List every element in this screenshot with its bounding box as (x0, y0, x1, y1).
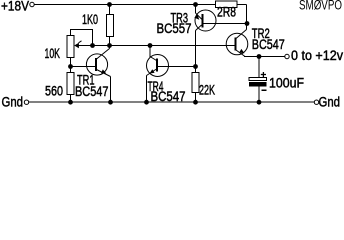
svg-text:10K: 10K (45, 46, 61, 61)
svg-text:22K: 22K (199, 83, 215, 98)
svg-text:BC557: BC557 (157, 21, 192, 36)
svg-text:BC547: BC547 (75, 84, 109, 99)
svg-text:Gnd: Gnd (319, 95, 341, 110)
svg-text:1K0: 1K0 (82, 12, 98, 27)
svg-text:2R8: 2R8 (217, 5, 236, 20)
svg-text:Gnd: Gnd (2, 95, 24, 110)
svg-text:SMØVPO: SMØVPO (299, 0, 342, 13)
svg-text:560: 560 (45, 84, 63, 99)
svg-text:BC547: BC547 (252, 37, 285, 52)
svg-text:100uF: 100uF (269, 76, 304, 91)
svg-text:BC547: BC547 (151, 89, 186, 104)
svg-text:+18V: +18V (1, 0, 29, 14)
svg-text:0 to +12v: 0 to +12v (291, 48, 343, 63)
